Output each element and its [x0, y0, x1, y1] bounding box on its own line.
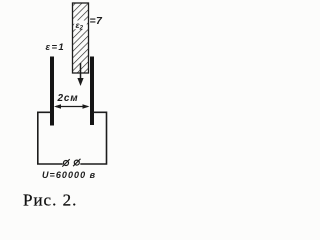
- left capacitor plate: [50, 57, 54, 126]
- caption Рис. 2.: [23, 191, 77, 210]
- svg-text:ε=1: ε=1: [46, 42, 66, 53]
- dielectric slab (hatched bar): [73, 3, 89, 73]
- right capacitor plate: [90, 57, 94, 126]
- spark gap electrode right: [73, 159, 80, 166]
- svg-text:U=60000 в: U=60000 в: [42, 170, 96, 180]
- svg-text:=7: =7: [90, 15, 104, 27]
- label ε = 1: [46, 42, 66, 53]
- svg-text:Рис. 2.: Рис. 2.: [23, 191, 77, 210]
- wire: right plate to right branch: [80, 112, 106, 164]
- label = 7: [90, 15, 104, 27]
- label U = 60000 в: [42, 170, 96, 180]
- label ε2 (inside slab): [74, 20, 87, 32]
- arrow: slab motion downward: [77, 63, 83, 86]
- dimension arrow 2cm (double-headed): [54, 104, 90, 109]
- label 2см: [57, 93, 79, 104]
- svg-text:2см: 2см: [57, 93, 79, 104]
- wire: left plate to left branch: [38, 112, 63, 164]
- spark gap electrode left: [62, 159, 69, 166]
